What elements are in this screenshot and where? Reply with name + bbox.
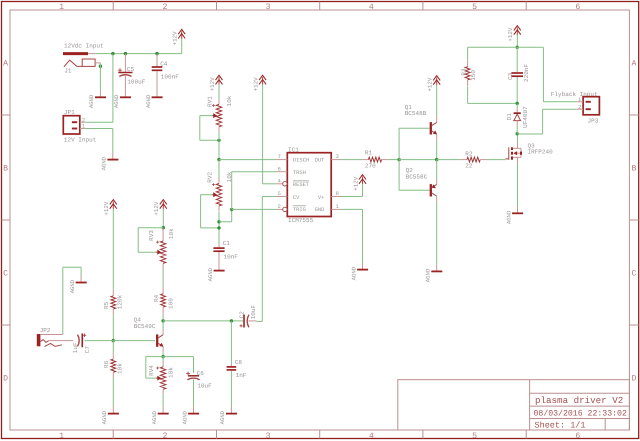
svg-text:R6: R6 <box>103 360 110 368</box>
svg-text:Sheet: 1/1: Sheet: 1/1 <box>535 421 586 431</box>
resistor R6 10k <box>103 353 123 378</box>
supply +12V arrow at IC1 V+ <box>352 175 366 191</box>
svg-text:10k: 10k <box>226 95 233 106</box>
svg-text:3: 3 <box>266 3 271 12</box>
wire R6 bottom to ground <box>112 378 114 407</box>
svg-text:RV2: RV2 <box>206 171 213 182</box>
wire base rail to emitter junction <box>399 159 437 161</box>
svg-text:BC548B: BC548B <box>405 110 427 117</box>
ground AGND at Q3 <box>505 207 523 224</box>
svg-text:1nF: 1nF <box>236 372 247 379</box>
svg-text:220nF: 220nF <box>523 64 530 82</box>
svg-text:J1: J1 <box>64 68 72 75</box>
ground AGND at C1 <box>207 264 225 281</box>
ground AGND at RV4 <box>151 407 169 424</box>
IC1 pin names <box>293 158 325 213</box>
junction snubber node <box>516 102 519 105</box>
wire V+ pin 8 <box>341 184 363 197</box>
connector JP3 flyback <box>577 97 600 125</box>
resistor R5 120k <box>103 290 123 315</box>
svg-text:4: 4 <box>369 3 374 12</box>
svg-text:100nF: 100nF <box>161 73 179 80</box>
transistor Q4 BC549C <box>134 317 163 353</box>
svg-text:JP1: JP1 <box>64 109 75 116</box>
svg-text:5: 5 <box>278 191 281 197</box>
wire Q1 emitter to node <box>436 140 438 160</box>
svg-text:R4: R4 <box>153 294 160 302</box>
ground AGND at JP1 <box>101 153 119 170</box>
resistor R4 100 <box>153 288 175 313</box>
svg-text:D: D <box>3 375 8 384</box>
svg-text:270: 270 <box>365 162 376 169</box>
wire emitter node to C6 <box>163 357 193 373</box>
svg-text:IC1: IC1 <box>288 146 299 153</box>
wire RV1 bottom to DISCH node <box>218 132 220 159</box>
svg-text:C1: C1 <box>223 240 231 247</box>
svg-text:AGND: AGND <box>88 94 95 108</box>
wire R4 bottom to collector node <box>162 313 164 321</box>
capacitor C2 10uF <box>239 304 258 327</box>
ground AGND at IC1 <box>350 263 368 280</box>
wire R6 to base node <box>112 341 114 353</box>
svg-text:RV3: RV3 <box>148 230 155 241</box>
svg-text:B: B <box>631 165 636 174</box>
supply +12V arrow at RESET <box>252 75 266 91</box>
svg-text:5: 5 <box>472 3 477 12</box>
pin number 1 of JP1 <box>82 124 85 130</box>
potentiometer RV2 10k <box>206 171 233 211</box>
svg-text:C: C <box>631 270 636 279</box>
wire JP2 sleeve to ground <box>63 267 81 334</box>
wire Q4 collector <box>162 321 164 329</box>
svg-text:plasma driver V2: plasma driver V2 <box>535 395 623 406</box>
svg-text:6: 6 <box>278 166 281 172</box>
wire Q2 collector to ground <box>436 202 438 265</box>
svg-text:C3: C3 <box>507 72 514 80</box>
wire C7 to base node <box>85 340 114 342</box>
transistor Q1 BC548B <box>405 104 437 140</box>
svg-text:1: 1 <box>59 3 64 12</box>
junction base node Q4 <box>112 339 115 342</box>
svg-text:JP3: JP3 <box>588 117 599 124</box>
wire C8 branch down <box>230 321 232 363</box>
svg-text:+12V: +12V <box>172 31 179 45</box>
title sheet text <box>535 421 586 431</box>
svg-text:R1: R1 <box>365 150 373 157</box>
svg-text:+12V: +12V <box>507 27 514 41</box>
supply +12V arrow at RV3 <box>153 200 167 229</box>
svg-text:AGND: AGND <box>181 410 188 424</box>
capacitor C7 1uF <box>72 333 91 353</box>
svg-text:AGND: AGND <box>101 410 108 424</box>
svg-text:3: 3 <box>266 432 271 441</box>
svg-text:120k: 120k <box>116 294 123 309</box>
svg-text:10nF: 10nF <box>224 253 239 260</box>
svg-text:AGND: AGND <box>219 410 226 424</box>
wire TRIG branch to TRSH vertical <box>219 209 232 221</box>
svg-text:10uF: 10uF <box>250 304 257 319</box>
wire DISCH node down to RV2 <box>218 160 220 178</box>
wire RV2 bottom to C1 <box>218 211 220 244</box>
svg-text:B: B <box>3 165 8 174</box>
svg-text:BC558C: BC558C <box>406 173 428 180</box>
junction collector node Q4 <box>161 319 164 322</box>
wire emitter node to R2 <box>437 159 461 161</box>
wire base node to Q4 <box>113 340 155 342</box>
capacitor C4 100nF <box>152 54 180 91</box>
supply +12V arrow at Q1 collector <box>427 76 441 117</box>
IC1 pin stubs <box>276 160 340 212</box>
svg-text:AGND: AGND <box>113 94 120 108</box>
svg-text:C6: C6 <box>197 370 205 377</box>
svg-text:6: 6 <box>575 3 580 12</box>
supply +12V arrow top right <box>507 26 521 48</box>
wire RV3 wiper loop <box>138 228 163 253</box>
svg-text:AGND: AGND <box>145 94 152 108</box>
svg-text:2: 2 <box>578 104 581 110</box>
svg-text:1: 1 <box>578 97 581 103</box>
svg-text:RV4: RV4 <box>148 365 155 376</box>
wire Q3 source to ground <box>517 163 519 207</box>
svg-text:V+: V+ <box>318 195 324 201</box>
svg-text:+12V: +12V <box>427 77 434 91</box>
svg-text:3: 3 <box>336 154 339 160</box>
wire RV2 wiper loop <box>201 195 219 228</box>
svg-text:+12V: +12V <box>209 77 216 91</box>
wire RV4 wiper loop <box>146 357 163 379</box>
title text plasma driver V2 <box>535 395 623 406</box>
svg-text:22: 22 <box>465 163 473 170</box>
svg-text:R2: R2 <box>465 150 473 157</box>
ground AGND at J1 <box>88 91 106 108</box>
op-amp timer IC1 ICM7555 box <box>287 146 331 224</box>
svg-text:10k: 10k <box>168 367 175 378</box>
svg-text:150: 150 <box>470 70 477 81</box>
junction TRSH TRIG node <box>230 208 233 211</box>
svg-text:C: C <box>3 270 8 279</box>
svg-text:2: 2 <box>162 432 167 441</box>
wire JP1 pin2 to +12V rail <box>84 54 113 123</box>
svg-text:4: 4 <box>369 432 374 441</box>
junction drain node <box>516 132 519 135</box>
wire +12V to RESET pin 4 <box>263 84 277 183</box>
junction base node <box>397 158 400 161</box>
svg-text:+12V: +12V <box>103 201 110 215</box>
junction J1 sleeve node <box>99 65 102 68</box>
wire DISCH node to IC1 pin 7 <box>219 159 276 161</box>
wire top rail to R3 branch <box>468 47 518 60</box>
svg-text:D: D <box>631 375 636 384</box>
svg-text:AGND: AGND <box>69 279 76 293</box>
svg-text:10k: 10k <box>116 363 123 374</box>
capacitor C8 1nF <box>227 359 247 407</box>
wire Q4 emitter <box>162 352 164 356</box>
resistor R2 22 <box>461 150 486 169</box>
wire CV pin 5 to C2 <box>256 197 276 322</box>
junction rail at C4 <box>155 52 158 55</box>
svg-text:TRSH: TRSH <box>293 170 306 176</box>
wire R2 to Q3 gate <box>486 159 505 161</box>
junction +12V rail top <box>516 46 519 49</box>
svg-text:ICM7555: ICM7555 <box>288 217 314 224</box>
wire +12V rail from J1 <box>95 53 182 55</box>
frame row ticks <box>2 115 639 325</box>
svg-text:+12V: +12V <box>252 77 259 91</box>
capacitor C5 100uF electrolytic <box>118 54 146 91</box>
svg-text:A: A <box>631 60 636 69</box>
wire Q2 emitter to node <box>436 160 438 179</box>
label Flyback Input <box>551 91 598 98</box>
svg-text:A: A <box>3 60 8 69</box>
potentiometer RV4 10k <box>148 361 175 394</box>
svg-text:8: 8 <box>336 191 339 197</box>
ground AGND at C6 <box>181 407 199 424</box>
wire flyback return to drain <box>517 109 577 134</box>
junction emitter node Q4 <box>161 355 164 358</box>
wire Q1 base <box>399 128 430 159</box>
wire JP1 pin1 to ground <box>84 129 112 154</box>
transistor Q2 BC558C <box>406 167 437 202</box>
potentiometer RV1 10k <box>206 95 233 132</box>
capacitor C1 10nF <box>213 240 238 264</box>
junction DISCH node <box>217 158 220 161</box>
supply +12V arrow above RV1 <box>209 75 223 99</box>
wire GND pin 1 to ground <box>341 209 363 263</box>
svg-text:10k: 10k <box>168 228 175 239</box>
svg-text:AGND: AGND <box>151 410 158 424</box>
junction TRIG branch <box>217 220 220 223</box>
svg-text:12Vdc Input: 12Vdc Input <box>64 43 104 50</box>
svg-text:AGND: AGND <box>350 266 357 280</box>
svg-text:AGND: AGND <box>425 268 432 282</box>
label 12Vdc Input <box>64 43 104 50</box>
junction C8 branch <box>230 319 233 322</box>
connector J1 power jack <box>63 54 100 75</box>
svg-text:DISCH: DISCH <box>293 158 309 164</box>
title block <box>398 380 630 430</box>
capacitor C3 220nF <box>507 47 530 103</box>
svg-text:R5: R5 <box>103 301 110 309</box>
svg-text:1: 1 <box>336 204 339 210</box>
wire J1 sleeve to ground <box>99 63 101 91</box>
ground AGND at JP2 <box>69 276 87 293</box>
svg-text:2: 2 <box>278 204 281 210</box>
svg-text:100: 100 <box>168 298 175 309</box>
diode D1 UF4007 <box>506 103 529 133</box>
wire collector node to C2 <box>163 320 243 322</box>
wire OUT pin 3 to R1 <box>341 159 363 161</box>
svg-text:1: 1 <box>59 432 64 441</box>
junction RV2 wiper node <box>217 226 220 229</box>
wire top rail to flyback <box>517 47 577 102</box>
wire R1 to driver bases <box>388 159 399 161</box>
svg-text:JP2: JP2 <box>40 327 51 334</box>
junction RV3 top <box>162 226 165 229</box>
svg-text:C4: C4 <box>160 60 168 67</box>
junction emitter node <box>435 158 438 161</box>
svg-text:100uF: 100uF <box>127 79 145 86</box>
pin number 2 of JP1 <box>82 117 85 123</box>
junction rail at C5 <box>124 52 127 55</box>
frame row labels <box>3 60 636 384</box>
ground AGND at C8 <box>219 407 237 424</box>
svg-text:2: 2 <box>162 3 167 12</box>
potentiometer RV3 10k <box>148 228 175 269</box>
frame column ticks <box>113 2 526 439</box>
svg-text:RESET: RESET <box>293 182 310 188</box>
svg-text:R3: R3 <box>460 68 467 76</box>
pin number 1 of JP3 <box>578 97 581 103</box>
ground AGND at C4 <box>145 91 163 108</box>
svg-text:12V Input: 12V Input <box>64 136 96 143</box>
svg-text:GND: GND <box>315 207 325 213</box>
svg-text:5: 5 <box>472 432 477 441</box>
svg-text:CV: CV <box>293 195 300 201</box>
svg-text:AGND: AGND <box>505 210 512 224</box>
svg-text:D1: D1 <box>506 113 513 121</box>
svg-text:TRIG: TRIG <box>293 207 306 213</box>
svg-text:BC549C: BC549C <box>134 323 156 330</box>
svg-text:C8: C8 <box>235 359 243 366</box>
svg-text:IRFP240: IRFP240 <box>528 149 554 156</box>
junction RV1 bottom <box>217 139 220 142</box>
supply +12V arrow at R5 <box>103 200 117 290</box>
ground AGND at Q2 <box>425 265 443 282</box>
supply +12V arrow top-left rail <box>172 29 186 53</box>
IC1 pin numbers <box>278 154 339 210</box>
svg-text:10uF: 10uF <box>197 383 212 390</box>
pin number 2 of JP3 <box>578 104 581 110</box>
wire TRSH vertical <box>232 172 276 210</box>
resistor R3 150 <box>460 61 477 86</box>
capacitor C6 10uF electrolytic <box>186 370 212 407</box>
svg-text:AGND: AGND <box>101 156 108 170</box>
wire R5 bottom to base node <box>112 315 114 340</box>
svg-text:4: 4 <box>278 178 281 184</box>
title date text <box>534 409 627 418</box>
svg-text:6: 6 <box>575 432 580 441</box>
wire Q3 drain <box>517 134 519 143</box>
wire RV4 bottom to ground <box>162 395 164 407</box>
svg-text:+12V: +12V <box>352 176 359 190</box>
svg-text:UF4007: UF4007 <box>522 106 529 128</box>
svg-text:7: 7 <box>278 154 281 160</box>
resistor R1 270 <box>362 150 387 170</box>
wire Q2 base <box>399 160 430 191</box>
wire emitter node to RV4 <box>162 357 164 362</box>
svg-text:+12V: +12V <box>153 201 160 215</box>
connector JP1 12V Input <box>63 109 96 143</box>
wire RV1 wiper loop <box>200 116 219 141</box>
svg-text:C2: C2 <box>239 311 246 319</box>
svg-text:C5: C5 <box>127 66 135 73</box>
connector JP2 audio jack <box>39 327 73 347</box>
svg-text:C7: C7 <box>84 346 91 354</box>
ground AGND at C5 <box>113 91 131 108</box>
ground AGND at R6 <box>101 407 119 424</box>
transistor Q3 IRFP240 MOSFET <box>505 142 553 163</box>
svg-text:08/03/2016 22:33:02: 08/03/2016 22:33:02 <box>534 409 627 418</box>
wire R3 bottom to snubber node <box>468 87 518 104</box>
wire TRIG to IC1 pin 2 <box>232 208 276 210</box>
svg-text:AGND: AGND <box>207 267 214 281</box>
svg-text:RV1: RV1 <box>206 96 213 107</box>
wire RV3 bottom to R4 <box>162 269 164 288</box>
svg-text:1uF: 1uF <box>72 342 79 353</box>
junction rail at JP1 riser <box>111 52 114 55</box>
svg-text:OUT: OUT <box>315 158 325 164</box>
